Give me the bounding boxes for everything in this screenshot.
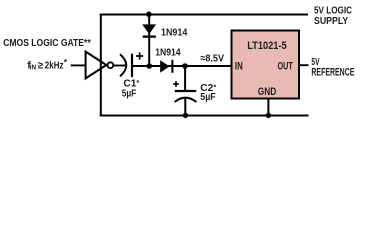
node: rail junction above D1 (146, 12, 152, 18)
wire: OUT stub (299, 64, 309, 66)
label: C1* 5uF (122, 78, 140, 99)
label: fIN >= 2kHz* (27, 57, 67, 71)
wire: bottom ground rail (100, 115, 309, 117)
capacitor C2 curved plate (175, 98, 197, 102)
capacitor C1 curved plate (120, 54, 126, 76)
wire: GND stub (267, 99, 269, 117)
svg-text:SUPPLY: SUPPLY (314, 16, 348, 27)
svg-text:IN: IN (235, 60, 243, 72)
wire: C2 upper lead (184, 66, 186, 91)
svg-text:2kHz: 2kHz (45, 60, 64, 71)
capacitor C1 straight plate (131, 54, 133, 77)
wire: C2 lower lead (184, 98, 186, 116)
CMOS inverter gate U1 (86, 52, 107, 79)
svg-text:≈8.5V: ≈8.5V (200, 54, 224, 65)
node: C1/D1/D2 junction (147, 63, 153, 69)
node: C2 top junction (182, 63, 188, 69)
C1 polarity plus (136, 52, 143, 59)
svg-text:REFERENCE: REFERENCE (311, 67, 354, 79)
gate output bubble (108, 62, 114, 68)
label: 5V LOGIC SUPPLY (314, 6, 352, 28)
wire: input to gate (71, 64, 86, 66)
IC U2 LT1021-5 box (232, 31, 300, 99)
wire: gate supply vertical (5V to GND through gate) (100, 14, 102, 117)
wire: C1 to IC IN (main node wire) (133, 65, 232, 67)
svg-text:5µF: 5µF (200, 92, 215, 103)
wire: D1 vertical (148, 15, 150, 67)
svg-text:1N914: 1N914 (155, 47, 181, 58)
svg-text:*: * (64, 57, 68, 67)
svg-text:IN: IN (30, 62, 36, 71)
diode D1 triangle (anode up) (142, 24, 156, 34)
wire: top 5V logic supply rail (100, 14, 308, 16)
svg-text:5V LOGIC: 5V LOGIC (314, 6, 352, 17)
diode D2 triangle (pointing right) (160, 60, 169, 72)
wire: bubble to C1 (114, 65, 126, 67)
svg-text:LT1021-5: LT1021-5 (247, 40, 287, 52)
svg-text:GND: GND (258, 86, 277, 98)
svg-text:1N914: 1N914 (161, 27, 187, 38)
capacitor C2 straight plate (175, 90, 196, 92)
C2 polarity plus (173, 81, 179, 87)
node: GND to ground rail (266, 113, 271, 118)
node: C2 to ground rail (183, 113, 188, 118)
svg-text:OUT: OUT (278, 60, 294, 72)
diode D2 cathode bar (171, 60, 173, 73)
svg-text:5µF: 5µF (122, 88, 137, 99)
label: C2* 5uF (200, 82, 216, 103)
svg-text:CMOS LOGIC GATE**: CMOS LOGIC GATE** (3, 38, 91, 49)
label: 5V REFERENCE (311, 57, 354, 79)
diode D1 cathode bar (143, 35, 156, 37)
svg-text:≥: ≥ (38, 60, 43, 71)
